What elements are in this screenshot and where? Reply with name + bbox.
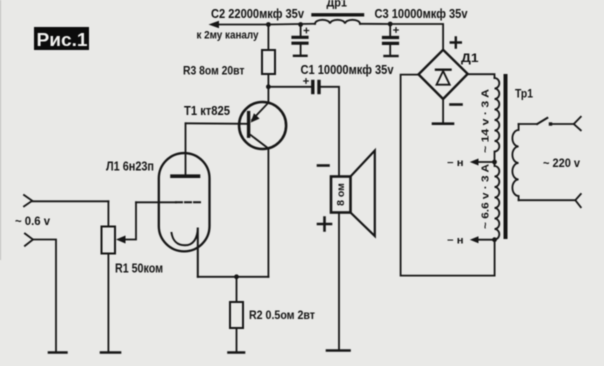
- potentiometer wiper arrow: [116, 202, 136, 243]
- node junction R3 bottom / emitter / C1: [266, 84, 271, 89]
- svg-text:~ 6.6 v · 3 A: ~ 6.6 v · 3 A: [480, 164, 492, 229]
- wire base: [186, 122, 247, 125]
- wire top rail junction to choke: [268, 23, 315, 26]
- tube L1 6n23p envelope: [159, 153, 210, 251]
- figure label Рис.1: [34, 27, 89, 50]
- svg-text:С2 22000мкф 35v: С2 22000мкф 35v: [211, 7, 304, 21]
- capacitor C1: [304, 79, 319, 93]
- tube anode: [172, 123, 199, 176]
- wire choke to C3 to bridge corner: [360, 24, 443, 50]
- svg-text:R1 50ком: R1 50ком: [115, 261, 163, 276]
- svg-text:~ 14 v · 3 A: ~ 14 v · 3 A: [480, 89, 492, 153]
- svg-text:к 2му каналу: к 2му каналу: [197, 30, 260, 42]
- transformer Tr1 secondary winding 6.6v: [495, 162, 500, 240]
- svg-text:− н: − н: [447, 236, 464, 247]
- tap arrow heater upper: [470, 159, 495, 166]
- inductor choke Dr1: [313, 15, 363, 24]
- svg-text:Тр1: Тр1: [515, 87, 533, 101]
- svg-text:8 ом: 8 ом: [335, 183, 347, 206]
- node junction R3 top: [266, 22, 271, 27]
- svg-text:Др1: Др1: [327, 0, 348, 10]
- wire speaker to ground: [338, 213, 340, 350]
- input terminal top: [24, 195, 108, 206]
- svg-text:Л1 6н23п: Л1 6н23п: [106, 159, 154, 174]
- transformer Tr1 primary winding: [512, 124, 518, 200]
- resistor R3: [262, 25, 275, 87]
- wire bridge left corner loop: [401, 75, 495, 276]
- svg-text:R3 8ом 20вт: R3 8ом 20вт: [183, 64, 245, 78]
- scan edge left: [0, 0, 2, 260]
- bridge minus lead to ground: [433, 99, 453, 124]
- transistor Q1 T1 kt825: [239, 87, 286, 277]
- bridge rectifier D1: [419, 50, 468, 99]
- svg-text:~ 220 v: ~ 220 v: [543, 156, 580, 170]
- input terminal bottom: [25, 234, 56, 352]
- capacitor C2: [293, 25, 309, 56]
- svg-text:Т1 кт825: Т1 кт825: [184, 103, 230, 118]
- ground bar input: [49, 351, 66, 354]
- resistor R2: [229, 277, 245, 353]
- node tap 6.6v: [492, 237, 497, 242]
- svg-text:~ 0.6 v: ~ 0.6 v: [15, 214, 50, 228]
- transformer core: [504, 74, 508, 239]
- wire C1 to speaker: [321, 87, 339, 176]
- transformer Tr1 secondary winding 14v: [495, 78, 500, 162]
- node top rail: arrow to 2nd channel: [209, 21, 269, 29]
- wire primary bottom to terminal: [519, 194, 581, 207]
- switch SA mains: [519, 117, 581, 131]
- wire cathode-collector rail: [198, 276, 269, 278]
- label speaker plus: [318, 218, 331, 231]
- node tap 14v: [492, 160, 497, 165]
- node junction C2 top: [298, 22, 303, 27]
- tube cathode: [172, 228, 198, 277]
- potentiometer R1: [101, 201, 120, 352]
- label bridge minus: [451, 103, 462, 106]
- wire junction to C1: [268, 86, 311, 88]
- node junction C3 top: [388, 22, 393, 27]
- svg-text:− н: − н: [447, 158, 464, 169]
- svg-text:Рис.1: Рис.1: [37, 30, 88, 50]
- capacitor C3: [384, 24, 399, 56]
- svg-text:С3 10000мкф 35v: С3 10000мкф 35v: [375, 7, 468, 21]
- tap arrow heater lower: [470, 236, 495, 243]
- svg-text:С1 10000мкф 35v: С1 10000мкф 35v: [301, 63, 394, 77]
- speaker LS (8 om): [331, 151, 375, 237]
- svg-text:R2 0.5ом 2вт: R2 0.5ом 2вт: [249, 308, 315, 322]
- tube grid (dashed): [136, 201, 200, 203]
- label speaker minus: [318, 164, 329, 167]
- ground bar speaker: [327, 349, 350, 352]
- wire bridge right corner to secondary: [468, 74, 495, 78]
- label bridge plus: [451, 38, 461, 48]
- node junction R2 top: [234, 274, 239, 279]
- svg-text:Д1: Д1: [461, 51, 479, 65]
